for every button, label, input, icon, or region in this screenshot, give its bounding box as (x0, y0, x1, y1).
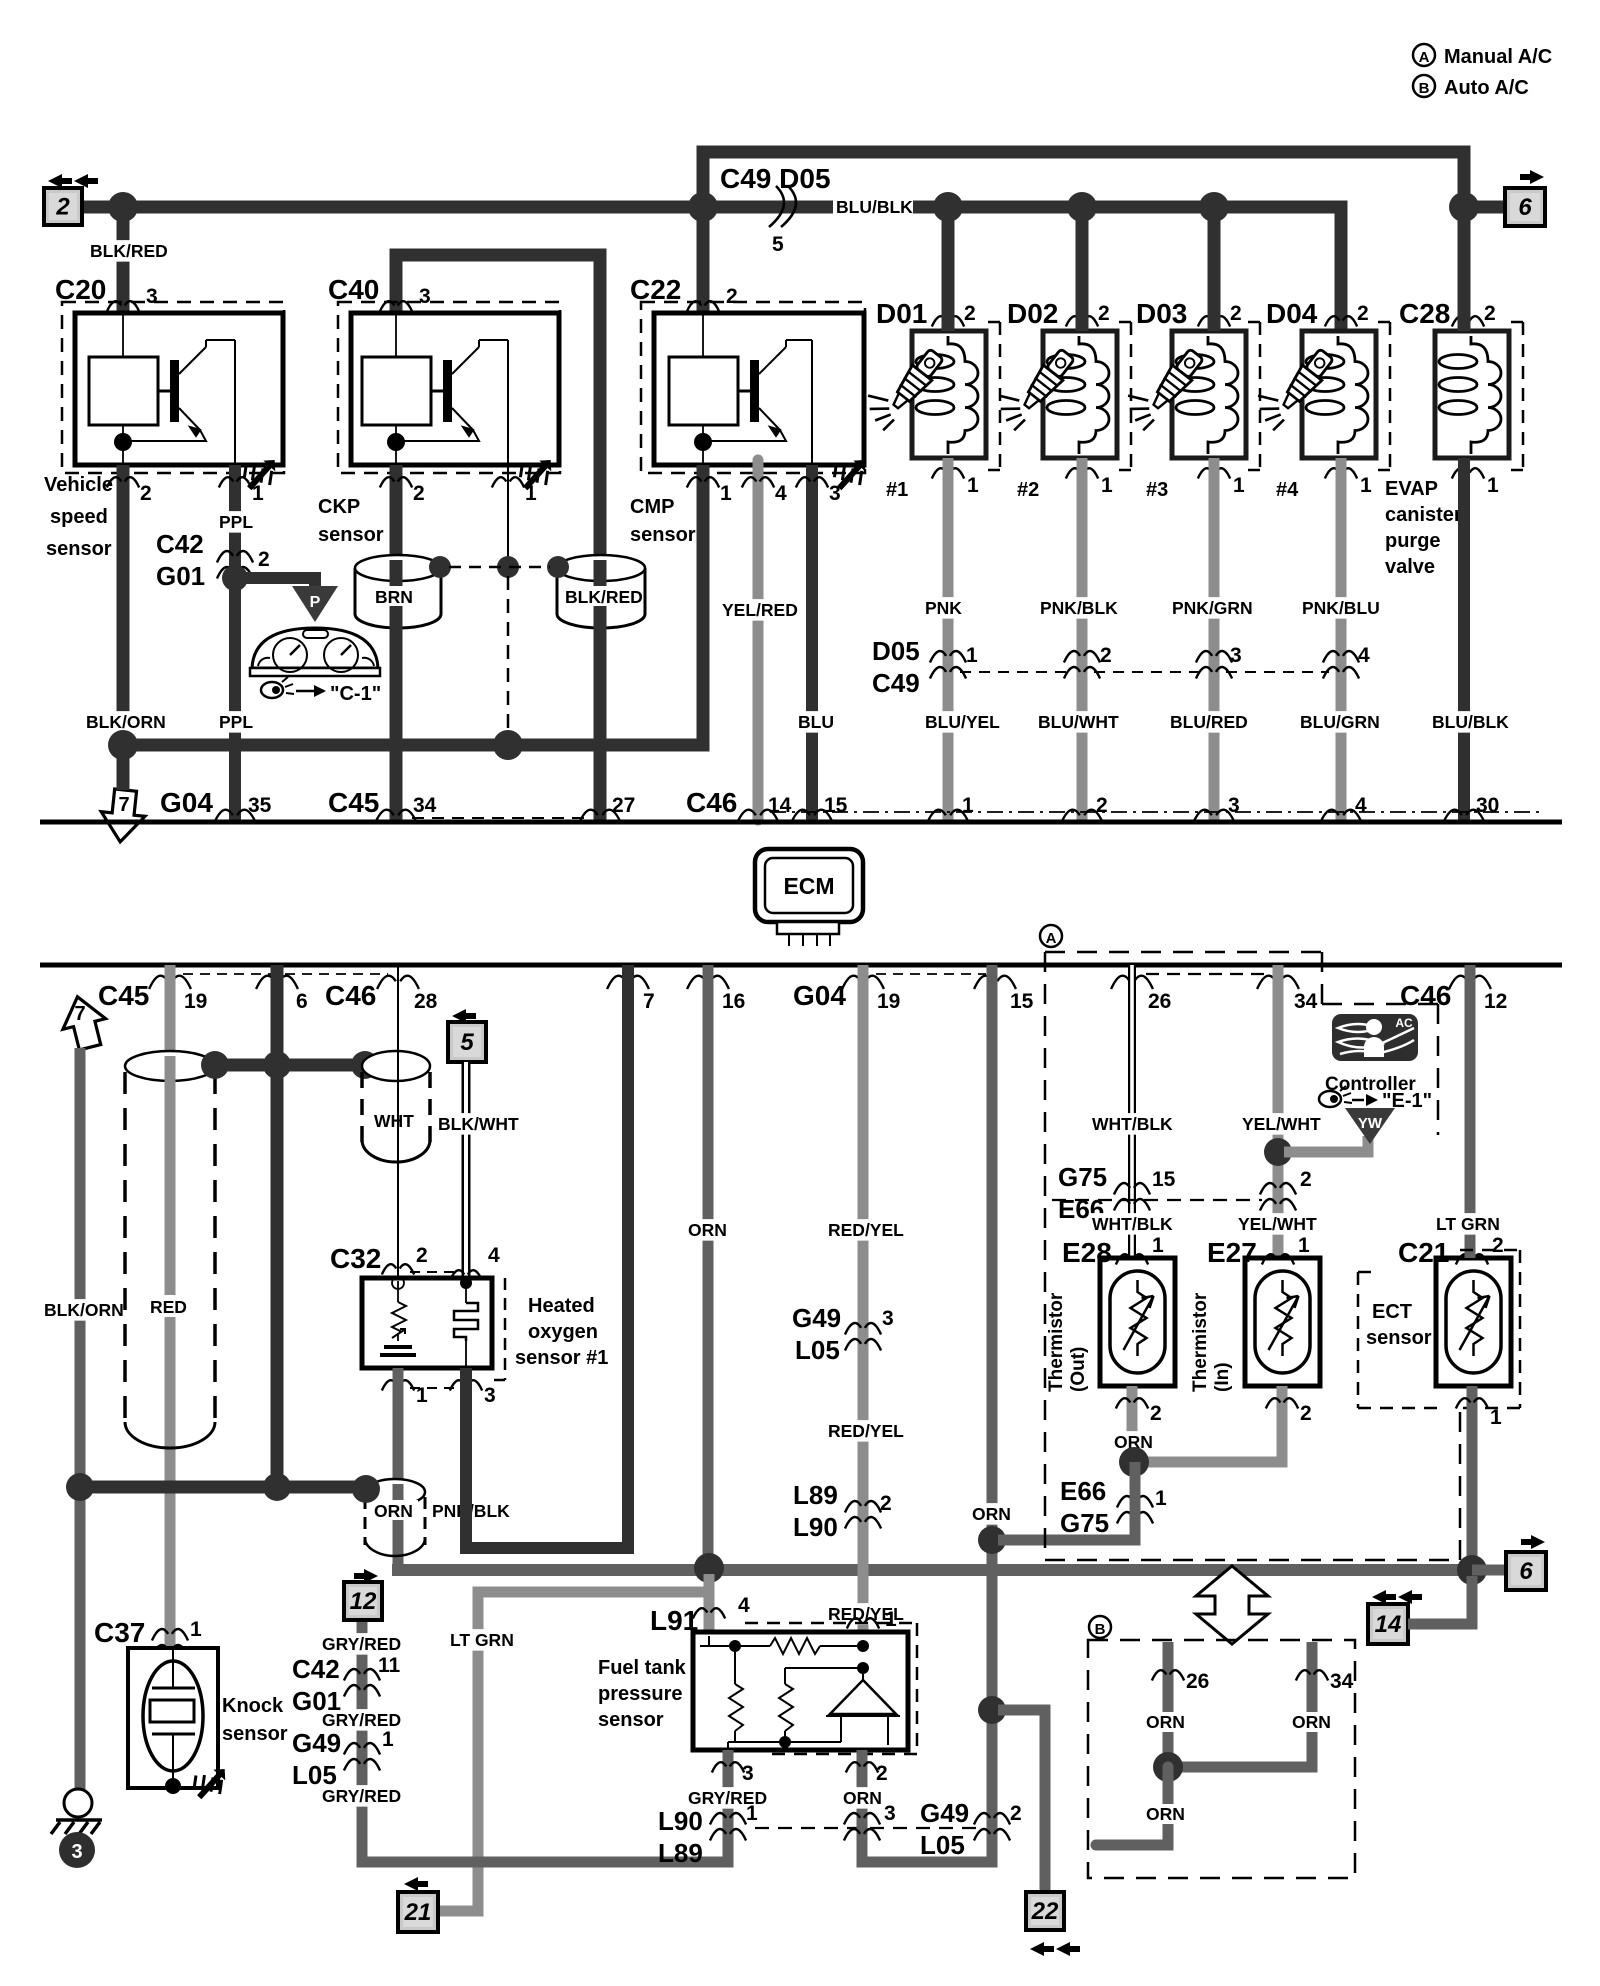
wire ORN oxygen sensor pin1 through shield drum to ORN bus (393, 1368, 404, 1570)
oxygen sensor pin 1 and 3 marks (382, 1380, 496, 1407)
wire PNK/GRN injector D03 pin1 to ECM pin 3 (1209, 458, 1220, 820)
wire C28 feed drop (1458, 214, 1471, 331)
svg-text:3: 3 (146, 285, 158, 308)
junction dot PPL to instrument cluster tap (222, 565, 248, 591)
destination triangle YW (1345, 1108, 1395, 1144)
junction box 21 with left arrow (398, 1877, 438, 1932)
wire ORN from L91 pin 2 up through G49/L05 (862, 965, 992, 1862)
svg-text:2: 2 (413, 482, 425, 505)
wire ORN E28 pin 2 down to tie (1116, 1386, 1162, 1462)
junction dot region B tie (1153, 1752, 1183, 1782)
vehicle speed sensor C20 box with hall transistor (62, 302, 284, 473)
svg-text:PPL: PPL (219, 712, 253, 732)
svg-text:BLK/RED: BLK/RED (565, 587, 643, 607)
label Knock sensor (222, 1695, 288, 1745)
svg-text:15: 15 (1152, 1168, 1176, 1191)
svg-text:4: 4 (738, 1594, 750, 1617)
junction dot shield bus left (66, 1473, 94, 1501)
svg-text:YEL/WHT: YEL/WHT (1238, 1214, 1317, 1234)
ECM box (755, 849, 863, 946)
junction dot injector D02 feed (1067, 192, 1097, 222)
svg-text:Auto A/C: Auto A/C (1444, 77, 1529, 99)
svg-text:LT GRN: LT GRN (1436, 1214, 1500, 1234)
label C49 D05 connector on bus (720, 163, 831, 256)
connector L89 L90 pin 2 on RED/YEL (793, 1480, 892, 1542)
svg-text:C42: C42 (292, 1654, 340, 1684)
ground arrow on knock sensor (187, 1758, 235, 1806)
svg-text:BLK/RED: BLK/RED (90, 241, 168, 261)
svg-text:sensor: sensor (46, 538, 112, 560)
fuel injector D02 (988, 298, 1131, 501)
svg-text:P: P (310, 594, 321, 611)
svg-text:WHT: WHT (374, 1111, 414, 1131)
connector marks L91 pin 3 (712, 1762, 754, 1785)
svg-text:sensor #1: sensor #1 (515, 1347, 608, 1369)
wire BLK/ORN from C20 pin 2 down to ground bus (107, 465, 152, 745)
svg-text:7: 7 (643, 990, 655, 1013)
connector G49 L05 pin 3 on RED/YEL wire (792, 1303, 894, 1365)
svg-text:L90: L90 (793, 1512, 838, 1542)
svg-text:sensor: sensor (318, 524, 384, 546)
svg-text:Thermistor: Thermistor (1046, 1292, 1067, 1392)
label BLU/BLK on bus (833, 196, 913, 217)
wire ORN L91 pin 4 drop (704, 1574, 715, 1636)
svg-text:2: 2 (1096, 794, 1108, 817)
bus2 pin labels C45 19 6 C46 28 7 16 G04 19 15 26 34 C46 12 (98, 974, 1507, 1013)
svg-text:L89: L89 (793, 1480, 838, 1510)
dashed region A boundary (1040, 925, 1460, 1560)
svg-text:1: 1 (885, 1608, 897, 1631)
junction dot C49/C22 node (688, 192, 718, 222)
label ECT sensor (1366, 1301, 1432, 1349)
svg-text:PNK: PNK (925, 598, 962, 618)
label Heated oxygen sensor #1 (515, 1295, 608, 1369)
svg-text:2: 2 (726, 285, 738, 308)
dashed connector line L90/L89 to G49/L05 (755, 1827, 980, 1829)
svg-text:2: 2 (416, 1244, 428, 1267)
connector G49 L05 pin 1 on GRY/RED riser (292, 1728, 394, 1790)
svg-text:D01: D01 (876, 298, 927, 329)
svg-text:2: 2 (140, 482, 152, 505)
svg-text:3: 3 (742, 1762, 754, 1785)
svg-text:3: 3 (829, 482, 841, 505)
svg-text:2: 2 (1300, 1168, 1312, 1191)
junction dot CKP pin1 node (497, 556, 519, 578)
svg-text:sensor: sensor (1366, 1327, 1432, 1349)
svg-text:G49: G49 (920, 1798, 969, 1828)
wire BLK/RED loop C40 pin 3 to ECM pin 27 (396, 255, 600, 820)
labels PNK PNK/BLK PNK/GRN PNK/BLU (923, 597, 1380, 619)
label RED/YEL mid (826, 1420, 904, 1442)
svg-text:L05: L05 (292, 1760, 337, 1790)
wire stub to connector box 6 top right (1464, 201, 1505, 214)
svg-text:C20: C20 (55, 274, 106, 305)
svg-text:2: 2 (1484, 302, 1496, 325)
label GRY/RED above corner (320, 1785, 401, 1807)
svg-text:BLK/ORN: BLK/ORN (44, 1300, 124, 1320)
wire ORN region B stub to left (1096, 1767, 1168, 1845)
svg-text:RED/YEL: RED/YEL (828, 1421, 904, 1441)
svg-text:L05: L05 (920, 1830, 965, 1860)
junction box 5 with left arrow (448, 1009, 486, 1062)
junction dot injector D01 feed (933, 192, 963, 222)
svg-text:(Out): (Out) (1068, 1347, 1089, 1392)
svg-text:2: 2 (258, 548, 270, 571)
svg-text:4: 4 (1355, 794, 1367, 817)
svg-text:1: 1 (967, 474, 979, 497)
svg-text:G49: G49 (292, 1728, 341, 1758)
svg-text:C49: C49 (872, 668, 920, 698)
svg-text:#1: #1 (886, 479, 908, 501)
svg-text:sensor: sensor (222, 1723, 288, 1745)
svg-text:5: 5 (460, 1029, 474, 1056)
svg-text:Knock: Knock (222, 1695, 284, 1717)
svg-text:26: 26 (1186, 1670, 1209, 1693)
thermistor E28 (out) box (1100, 1258, 1175, 1386)
wire LT GRN C46-12 to ECT sensor (1465, 965, 1476, 1258)
wire BLU/BLK top feeder line from C49/D05 to right side (703, 152, 1464, 207)
junction dot WHT drum tie (351, 1051, 379, 1079)
wire BRN from C40 pin 2 to ECM pin 34 (380, 465, 425, 820)
label RED/YEL upper (826, 1219, 904, 1241)
svg-text:L90: L90 (658, 1806, 703, 1836)
svg-text:2: 2 (1357, 302, 1369, 325)
svg-text:YW: YW (1358, 1115, 1383, 1132)
svg-text:C28: C28 (1399, 298, 1450, 329)
svg-text:34: 34 (1330, 1670, 1354, 1693)
wire RED C45-19 to knock sensor (165, 965, 176, 1648)
svg-text:D02: D02 (1007, 298, 1058, 329)
junction dot shield BRN (429, 556, 451, 578)
svg-text:1: 1 (252, 482, 264, 505)
svg-text:30: 30 (1476, 794, 1499, 817)
wire dark shield tie y1065 (213, 1059, 367, 1072)
svg-text:1: 1 (1152, 1234, 1164, 1257)
ground arrow on C40 case (513, 449, 561, 497)
svg-text:2: 2 (55, 194, 70, 221)
svg-text:16: 16 (722, 990, 745, 1013)
junction dot shield bus mid (263, 1473, 291, 1501)
wire injector D02 feed drop (1076, 214, 1089, 331)
svg-text:C32: C32 (330, 1243, 381, 1274)
svg-text:21: 21 (404, 1899, 432, 1926)
wire dark C45-6 down to shield bus (271, 965, 284, 1487)
junction dot shield bus at ORN drum (352, 1475, 380, 1503)
svg-text:1: 1 (1487, 474, 1499, 497)
label Vehicle speed sensor (44, 474, 113, 560)
junction dot at connector 2 bus / C20 drop (108, 192, 138, 222)
svg-text:19: 19 (877, 990, 900, 1013)
svg-text:15: 15 (824, 794, 848, 817)
label BLK/ORN bottom (42, 1299, 124, 1321)
label Controller (1325, 1074, 1416, 1095)
svg-text:#2: #2 (1017, 479, 1039, 501)
junction dot ground bus left (108, 730, 138, 760)
label CKP sensor (318, 496, 384, 546)
svg-text:12: 12 (1484, 990, 1507, 1013)
label LT GRN (448, 1629, 514, 1651)
junction dot ORN riser to E66/G75 tie (978, 1526, 1006, 1554)
svg-text:14: 14 (1375, 1611, 1402, 1638)
svg-text:1: 1 (382, 1728, 394, 1751)
label BLK/RED (88, 240, 168, 262)
wire ORN main bus lower (398, 1564, 1472, 1570)
svg-text:5: 5 (772, 233, 784, 256)
svg-text:2: 2 (876, 1762, 888, 1785)
label WHT/BLK upper (1090, 1113, 1173, 1135)
svg-text:PNK/BLU: PNK/BLU (1302, 598, 1380, 618)
big double-headed arrow between ORN bus and region B (1196, 1566, 1268, 1644)
svg-text:Vehicle: Vehicle (44, 474, 113, 496)
shield drum (tall) around RED knock wire (125, 1051, 215, 1648)
svg-text:2: 2 (1010, 1802, 1022, 1825)
svg-text:E27: E27 (1207, 1237, 1257, 1268)
svg-text:D04: D04 (1266, 298, 1318, 329)
ECT dashed boundary box (1358, 1250, 1520, 1408)
connector G49 L05 pin 2 on ORN riser (920, 1798, 1022, 1860)
svg-text:6: 6 (296, 990, 308, 1013)
wire stub to box 6 lower (1472, 1565, 1506, 1576)
svg-text:C45: C45 (328, 787, 379, 818)
svg-text:1: 1 (525, 482, 537, 505)
svg-text:27: 27 (612, 794, 635, 817)
svg-text:BLU/BLK: BLU/BLK (836, 197, 913, 217)
svg-text:G04: G04 (793, 980, 846, 1011)
svg-text:YEL/WHT: YEL/WHT (1242, 1114, 1321, 1134)
svg-text:1: 1 (1155, 1487, 1167, 1510)
svg-text:BLU/YEL: BLU/YEL (925, 712, 1000, 732)
svg-text:ORN: ORN (688, 1220, 727, 1240)
bus1 pin labels G04 35 C45 34 27 C46 14 15 1 2 3 4 30 (160, 787, 1545, 823)
junction dot C45-6 wire at tie (263, 1051, 291, 1079)
svg-text:1: 1 (962, 794, 974, 817)
svg-text:1: 1 (1101, 474, 1113, 497)
svg-text:AC: AC (1395, 1016, 1413, 1030)
svg-text:"C-1": "C-1" (330, 683, 381, 705)
EVAP canister purge valve C28 (coil only) (1399, 298, 1523, 497)
wire from box 14 up to ORN bus dot (1408, 1576, 1472, 1624)
fuel injector D01 (857, 298, 1000, 501)
wire tap to instrument cluster P arrow (241, 578, 315, 586)
dashed connector line G75/E66 (1052, 1199, 1262, 1201)
junction box 12 with right arrow (344, 1569, 382, 1620)
connector L90 L89 pin 1 (658, 1802, 758, 1868)
connector box 6 (top right) with right arrow (1505, 170, 1545, 226)
label LT GRN upper (1434, 1213, 1500, 1235)
wire ORN E27 pin 2 elbow to tie (1132, 1386, 1312, 1462)
connector L91 pin 4 marks (650, 1594, 750, 1636)
connector D05 C49 on injector wires (872, 636, 1370, 698)
wire YEL/WHT branch to YW destination arrow (1284, 1136, 1368, 1152)
svg-text:PNK/BLK: PNK/BLK (1040, 598, 1118, 618)
svg-text:YEL/RED: YEL/RED (722, 600, 798, 620)
svg-text:C46: C46 (1400, 980, 1451, 1011)
svg-text:C46: C46 (325, 980, 376, 1011)
svg-text:34: 34 (413, 794, 437, 817)
svg-text:L89: L89 (658, 1838, 703, 1868)
svg-text:pressure: pressure (598, 1683, 683, 1705)
shield drum ORN (365, 1479, 425, 1556)
svg-text:Thermistor: Thermistor (1190, 1292, 1211, 1392)
svg-text:valve: valve (1385, 556, 1435, 578)
dashed drain wire down from CKP pin1 node (507, 576, 510, 740)
connector C22 label and pin 2 (630, 274, 738, 312)
labels BLU/YEL BLU/WHT BLU/RED BLU/GRN BLU/BLK (923, 711, 1509, 733)
label E28 pin 1 (1062, 1234, 1164, 1268)
wire GRY/RED from L91 pin 3 to junction 12 loop (362, 1620, 728, 1862)
label Thermistor (Out) rotated (1046, 1292, 1089, 1392)
connector C37 pin 1 (94, 1617, 202, 1657)
svg-text:C42: C42 (156, 529, 204, 559)
dashed region B boundary (1088, 1616, 1355, 1878)
wire PNK/BLU injector D04 pin1 to ECM pin 4 (1336, 458, 1347, 820)
svg-text:CMP: CMP (630, 496, 674, 518)
wire ECT pin 1 down to ORN bus dot (1456, 1386, 1502, 1570)
label GRY/RED under pin3 (686, 1787, 767, 1809)
svg-text:BLU/GRN: BLU/GRN (1300, 712, 1380, 732)
label C21 pin 2 (1398, 1234, 1504, 1268)
wire injector D03 feed drop (1208, 214, 1221, 331)
ECM connector bus lower line (40, 963, 1562, 968)
svg-text:C22: C22 (630, 274, 681, 305)
svg-text:2: 2 (1300, 1402, 1312, 1425)
wire ORN region B pin 26 (1152, 1642, 1210, 1767)
label YEL/WHT lower (1236, 1213, 1317, 1235)
svg-text:BLK/WHT: BLK/WHT (438, 1114, 519, 1134)
shield drum BRN on CKP wire (355, 555, 441, 630)
svg-text:BLU/WHT: BLU/WHT (1038, 712, 1119, 732)
label Thermistor (In) rotated (1190, 1292, 1233, 1392)
svg-text:PPL: PPL (219, 512, 253, 532)
arrow P to instrument cluster (filled triangle) (292, 586, 338, 622)
ECM connector bus upper line (40, 820, 1562, 825)
label ORN B lower (1144, 1804, 1186, 1824)
svg-text:ORN: ORN (374, 1501, 413, 1521)
label E27 pin 1 (1207, 1234, 1310, 1268)
wire WHT/BLK double-line C46-26 to thermistor E28 (1128, 965, 1136, 1262)
connector C40 label and pin 3 (328, 274, 431, 312)
svg-text:E28: E28 (1062, 1237, 1112, 1268)
svg-text:2: 2 (1098, 302, 1110, 325)
connector marks YEL/WHT pin 2 (1260, 1168, 1312, 1211)
svg-text:3: 3 (419, 285, 431, 308)
svg-text:A: A (1419, 49, 1430, 66)
fuel tank pressure sensor L91 box (693, 1623, 917, 1754)
shield drum WHT on oxygen sensor signal (362, 1051, 430, 1162)
ground arrow on C20 case (237, 449, 285, 497)
ground arrow on C22 case (827, 449, 875, 497)
svg-text:LT GRN: LT GRN (450, 1630, 514, 1650)
wire RED/YEL G04-19 to fuel tank pressure sensor pin 1 (858, 965, 869, 1632)
wire to junction box 22 (998, 1710, 1045, 1892)
junction dot C28 feed / box 6 (1449, 192, 1479, 222)
label RED/YEL lower (826, 1603, 904, 1625)
legend circled B Auto A/C (1413, 75, 1529, 99)
svg-text:22: 22 (1031, 1898, 1059, 1925)
svg-text:3: 3 (884, 1802, 896, 1825)
thin wire C40 pin 1 to shield node (492, 465, 537, 567)
wire PNK/BLK from oxygen sensor pin 3 to ECM C46-7 (466, 965, 628, 1548)
svg-text:3: 3 (1230, 644, 1242, 667)
svg-text:1: 1 (1490, 1406, 1502, 1429)
svg-text:34: 34 (1294, 990, 1318, 1013)
connector marks L91 pin 2 / pin 3 of G49 L05 (844, 1762, 896, 1841)
thin wire WHT C46-28 to oxygen sensor pin 2 (397, 965, 399, 1281)
svg-text:G01: G01 (156, 561, 205, 591)
CMP sensor C22 box with transistor (641, 302, 865, 473)
svg-text:D03: D03 (1136, 298, 1187, 329)
svg-text:19: 19 (184, 990, 207, 1013)
svg-text:#3: #3 (1146, 479, 1168, 501)
label EVAP canister purge valve (1385, 478, 1462, 578)
svg-text:35: 35 (248, 794, 272, 817)
svg-text:sensor: sensor (630, 524, 696, 546)
junction dot injector D03 feed (1199, 192, 1229, 222)
junction box 22 with double left arrows (1026, 1892, 1080, 1956)
junction dot ORN bus at L91 (694, 1553, 724, 1583)
connector C42 G01 pin 11 on GRY/RED riser (292, 1654, 401, 1716)
svg-text:Manual A/C: Manual A/C (1444, 46, 1552, 68)
svg-text:G75: G75 (1060, 1508, 1109, 1538)
wire dark shield bus y1487 (80, 1481, 362, 1494)
svg-text:2: 2 (880, 1492, 892, 1515)
connector E66 G75 pin 1 (1060, 1476, 1167, 1538)
svg-text:14: 14 (768, 794, 792, 817)
svg-text:1: 1 (1233, 474, 1245, 497)
wire ORN tie dot to E66 G75 riser (998, 1468, 1135, 1540)
svg-text:1: 1 (1298, 1234, 1310, 1257)
junction dot shield left (201, 1051, 229, 1079)
label ORN above dot (970, 1503, 1011, 1525)
wire main BLK/RED power bus from connector 2 (82, 207, 1341, 331)
svg-text:11: 11 (378, 1654, 401, 1677)
label ORN B-34 (1290, 1712, 1332, 1732)
svg-text:1: 1 (1360, 474, 1372, 497)
svg-text:L05: L05 (795, 1335, 840, 1365)
svg-text:2: 2 (1492, 1234, 1504, 1257)
svg-text:BLU/BLK: BLU/BLK (1432, 712, 1509, 732)
wire drop to C22 pin 2 (697, 214, 710, 318)
svg-text:A: A (1046, 930, 1057, 947)
svg-text:RED/YEL: RED/YEL (828, 1220, 904, 1240)
arrow 7 down to ground reference (98, 788, 147, 844)
svg-text:C45: C45 (98, 980, 149, 1011)
svg-text:canister: canister (1385, 504, 1462, 526)
wire PNK injector D01 pin1 to ECM pin 1 (943, 458, 954, 820)
svg-text:Heated: Heated (528, 1295, 595, 1317)
svg-text:ORN: ORN (1292, 1712, 1331, 1732)
svg-text:CKP: CKP (318, 496, 360, 518)
svg-text:speed: speed (50, 506, 108, 528)
svg-text:ORN: ORN (843, 1788, 882, 1808)
svg-text:G49: G49 (792, 1303, 841, 1333)
svg-text:ECM: ECM (783, 873, 834, 899)
wire injector D01 feed drop (942, 214, 955, 331)
svg-text:3: 3 (882, 1307, 894, 1330)
label PPL lower (217, 711, 253, 733)
svg-text:EVAP: EVAP (1385, 478, 1438, 500)
svg-text:ORN: ORN (1146, 1804, 1185, 1824)
svg-text:4: 4 (1358, 644, 1370, 667)
junction dot shield BLK/RED (547, 556, 569, 578)
junction dot ORN bus right at box 6 (1457, 1555, 1487, 1585)
svg-text:#4: #4 (1276, 479, 1299, 501)
wire shield ground horizontal to CMP pin 1 (123, 465, 703, 745)
label PPL upper (217, 511, 253, 533)
svg-text:WHT/BLK: WHT/BLK (1092, 1114, 1173, 1134)
svg-text:BLK/ORN: BLK/ORN (86, 712, 166, 732)
fuel injector D03 (1117, 298, 1260, 501)
